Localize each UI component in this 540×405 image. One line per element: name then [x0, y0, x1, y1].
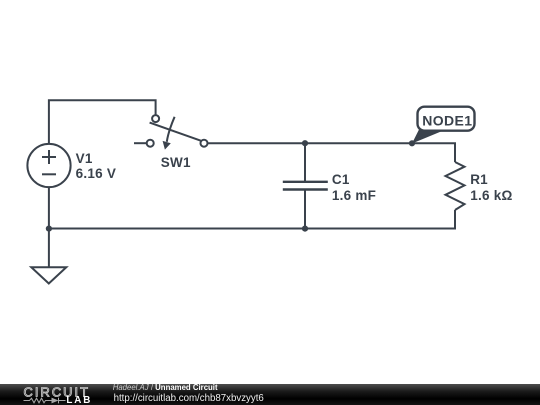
resistor R1 — [446, 162, 465, 210]
junction dot bottom-cap — [302, 226, 308, 232]
switch right terminal — [201, 140, 208, 147]
switch arrow head — [163, 141, 171, 150]
svg-text:1.6 kΩ: 1.6 kΩ — [470, 188, 512, 203]
switch top terminal — [152, 115, 159, 122]
svg-text:6.16 V: 6.16 V — [76, 166, 117, 181]
capacitor C1 — [283, 182, 328, 190]
wire resistor bottom to bottom rail — [49, 210, 455, 229]
wire capacitor top stub — [304, 143, 306, 182]
svg-text:http://circuitlab.com/chb87xbv: http://circuitlab.com/chb87xbvzyyt6 — [114, 393, 264, 404]
svg-text:R1: R1 — [470, 172, 488, 187]
svg-text:NODE1: NODE1 — [422, 112, 472, 128]
CircuitLab logo squiggle — [24, 398, 66, 404]
switch open contact circle — [147, 140, 154, 147]
node NODE1 dot — [409, 140, 415, 146]
switch SW1 — [134, 115, 208, 147]
wire capacitor bottom stub — [304, 190, 306, 229]
wire V1 top to switch — [49, 100, 156, 144]
switch open contact stub — [134, 142, 147, 144]
NODE1 callout pointer — [412, 130, 441, 144]
ground symbol — [31, 267, 66, 283]
switch blade — [150, 123, 201, 141]
svg-text:1.6 mF: 1.6 mF — [332, 188, 376, 203]
NODE1 callout box — [418, 107, 475, 131]
svg-text:V1: V1 — [76, 151, 93, 166]
svg-text:Hadeel.AJ / Unnamed Circuit: Hadeel.AJ / Unnamed Circuit — [113, 383, 218, 392]
voltage source V1 — [27, 144, 70, 187]
wire switch to resistor top — [208, 143, 456, 162]
switch motion arrow arc — [167, 117, 175, 142]
junction dot mid-cap — [302, 140, 308, 146]
svg-text:C1: C1 — [332, 172, 350, 187]
junction dot bottom-left — [46, 226, 52, 232]
CircuitLab logo diode — [52, 398, 59, 404]
svg-text:LAB: LAB — [66, 395, 92, 405]
wire V1 bottom to ground — [48, 187, 50, 267]
svg-text:SW1: SW1 — [161, 155, 191, 170]
